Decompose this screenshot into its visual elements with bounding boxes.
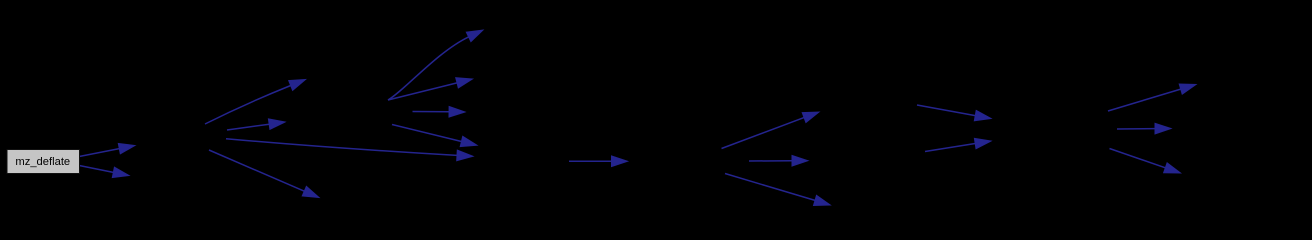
edge tdefl_optimize_huffman_table->tdefl_calculate_minimum_redundancy (1117, 123, 1171, 134)
edge tdefl_optimize_huffman_table->tdefl_radix_sort_syms (1108, 84, 1196, 111)
edge tdefl_start_static_block->tdefl_optimize_huffman_table (925, 138, 991, 151)
edge mz_deflate->tdefl_get_adler32 (79, 166, 129, 178)
edge tdefl_flush_block->tdefl_compress_lz_codes (569, 156, 628, 167)
edge tdefl_compress_normal->tdefl_record_literal (388, 78, 473, 100)
edge tdefl_compress_lz_codes->tdefl_flush_output_buffer2 (725, 174, 830, 206)
edge tdefl_compress_normal->tdefl_record_match (413, 107, 466, 118)
edge tdefl_compress->tdefl_flush_output_buffer (209, 150, 319, 198)
edge tdefl_compress_normal->tdefl_flush_block (392, 125, 477, 147)
edge tdefl_optimize_huffman_table->tdefl_huffman_enforce_max_code_size (1110, 149, 1181, 174)
edge tdefl_compress->tdefl_flush_block (226, 139, 473, 161)
edge tdefl_compress_normal->tdefl_find_match (388, 30, 483, 100)
edge tdefl_compress_lz_codes->tdefl_start_dynamic_block (722, 112, 820, 149)
node mz_deflate (7, 150, 80, 174)
svg-text:mz_deflate: mz_deflate (15, 156, 70, 168)
edge tdefl_compress_lz_codes->tdefl_start_static_block (749, 156, 808, 167)
edge mz_deflate->tdefl_compress (79, 143, 135, 156)
edge tdefl_compress->mz_adler32 (205, 80, 306, 125)
edge tdefl_compress->tdefl_compress_normal (227, 119, 285, 130)
edge tdefl_start_dynamic_block->tdefl_optimize_huffman_table (917, 105, 991, 121)
